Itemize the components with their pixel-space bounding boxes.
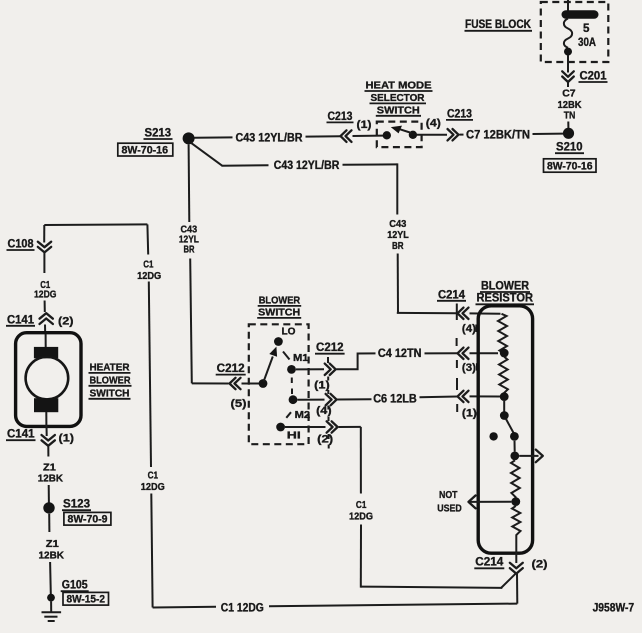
connector C212 (5) chevrons [230,378,241,389]
label C213 right [446,107,473,120]
label C108 [7,238,35,251]
resistor element segment 3 [511,460,520,501]
svg-text:C213: C213 [328,110,353,123]
reference box 8W-70-9 [64,512,111,525]
svg-text:(4): (4) [316,405,332,417]
connector C214 dashed line [456,304,459,413]
reference box 8W-15-2 [63,592,109,605]
label SWITCH [376,106,421,117]
svg-text:C7 12BK/TN: C7 12BK/TN [466,128,530,141]
wire label Z1 12BK (lower) [39,539,65,562]
splice S123 [43,502,54,513]
splice S210 [563,128,574,139]
wire to C141 (2) [44,301,46,313]
motor armature circle [26,357,69,400]
connector C212 (1) chevrons [325,364,336,375]
label S123 [62,498,91,511]
splice dot (1) tap [500,392,509,401]
label FUSE BLOCK [465,18,533,31]
svg-text:C1: C1 [356,500,367,511]
wire bottom C1 12DG right segment [269,604,517,607]
svg-text:S210: S210 [556,141,583,154]
label BLOWER (switch title) [258,295,302,306]
fuse block dashed box [541,2,609,62]
connector C213 right chevrons [448,129,459,140]
splice dot with output arrow [510,452,519,461]
svg-text:RESISTOR: RESISTOR [477,292,534,305]
wire C212(5) to pivot [242,383,260,385]
wire HI branch down lower [360,525,362,588]
svg-text:5: 5 [583,22,590,35]
dash M2 to HI [286,412,291,418]
wire into S210 [533,133,564,135]
wire label C1 12DG (HI branch) [349,500,373,523]
wire C4 12TN from C212(1): M1 jog [337,353,376,369]
svg-text:M2: M2 [295,410,311,421]
ground symbol [42,612,62,621]
wire into C214 (3) [425,352,458,354]
wire M1 to C212(1) [296,368,324,370]
wire HI branch horizontal [361,587,503,588]
heat mode selector switch dashed box [377,122,422,148]
isolated contact dot [489,432,497,440]
svg-text:M1: M1 [293,353,309,364]
wire fuse to C201 [567,55,569,73]
M2 contact [289,395,298,404]
connector C214 (1) chevrons [458,391,469,402]
svg-text:C1: C1 [143,260,153,271]
label BLOWER (motor) [89,375,132,386]
svg-text:C1: C1 [148,471,159,482]
wire C201 to S210 [567,122,569,129]
blower resistor outline [478,306,532,553]
blower switch dashed box [249,324,309,444]
LO contact [274,337,283,346]
svg-text:Z1: Z1 [43,463,56,474]
resistor element segment 1 [498,314,507,353]
wire C1 12DG middle vertical upper [146,224,149,254]
connector C212 (4) chevrons [326,394,337,405]
svg-text:12BK: 12BK [38,474,64,485]
motor lead bottom [45,412,47,426]
svg-text:C1 12DG: C1 12DG [221,601,264,614]
motor lead top [45,334,47,348]
svg-text:8W-15-2: 8W-15-2 [67,594,106,606]
svg-text:C4 12TN: C4 12TN [378,347,422,360]
HI contact [276,423,285,432]
label BLOWER (resistor title) [480,280,530,293]
wire G105 to ground [50,602,52,612]
svg-text:SELECTOR: SELECTOR [371,93,425,104]
wire to S123 [48,485,50,503]
label C212 left [216,362,246,375]
wire C1 12DG middle vertical middle [149,282,151,468]
svg-text:G105: G105 [62,579,88,592]
svg-text:BLOWER: BLOWER [90,375,131,386]
label HEATER [89,362,131,373]
thermal limiter arm [506,419,514,433]
wire to G105 [49,562,52,594]
label NOT USED [437,490,462,515]
wire C214(1) into resistor [470,395,501,397]
label C213 left [327,110,354,123]
fuse F5 30A element [564,19,572,48]
wire label C1 12DG (middle upper) [137,260,161,282]
svg-text:BLOWER: BLOWER [481,280,530,293]
svg-text:C201: C201 [580,70,608,83]
svg-text:8W-70-16: 8W-70-16 [122,145,169,157]
svg-text:C141: C141 [7,428,35,441]
wire C108 to label [43,253,45,273]
heat mode switch left contact [383,131,391,139]
wire corner down toward C214 [396,163,398,214]
connector C141 (2) chevrons [40,313,53,324]
svg-text:(4): (4) [426,118,441,130]
connector C214 (3) chevrons [458,348,469,359]
NOT USED arrow left [469,496,512,509]
svg-text:LO: LO [282,327,296,338]
blower switch arm arrowhead [269,347,277,357]
label C212 right [315,341,345,354]
wire into switch [353,135,384,137]
svg-text:12DG: 12DG [34,290,57,301]
blower switch arm [264,357,273,382]
svg-text:J958W-7: J958W-7 [593,602,635,615]
label C201 [579,70,608,83]
label SELECTOR [370,93,427,104]
heat mode switch arm arrowhead [391,126,402,134]
wire M2 to C212(4) [297,399,324,401]
wire C6 12LB from C212(4) [337,398,372,400]
label C214 top [437,288,466,301]
splice S213 [183,132,195,144]
wire label C7 12BK TN [558,89,583,122]
reference box 8W-70-16 (S213) [118,143,173,156]
svg-text:C7: C7 [562,89,576,100]
svg-text:C108: C108 [8,238,35,251]
M1 contact [287,365,296,374]
wire switch to C213 right [417,134,448,136]
svg-text:SWITCH: SWITCH [90,388,130,399]
svg-text:NOT: NOT [439,490,458,501]
svg-text:S123: S123 [63,498,91,511]
wire label C1 12DG (middle lower) [141,471,165,494]
thermal limiter contact dot [500,411,509,420]
wire HI branch down upper [360,427,362,494]
connector C214 (2) chevrons [510,563,523,574]
svg-text:12YL: 12YL [387,230,409,241]
connector C212 (2) chevrons [327,421,338,432]
wire lower C43 branch horizontal [222,164,269,166]
svg-text:C6 12LB: C6 12LB [373,392,417,405]
label C214 bottom [474,556,504,569]
wire label C1 12DG (motor feed) [34,280,57,301]
hot bus bar [562,10,599,19]
heater blower switch (motor) outline [16,333,81,427]
svg-text:(1): (1) [462,408,477,420]
wire label C43 12YL BR (stack left) [179,224,200,255]
svg-text:(1): (1) [59,433,75,445]
svg-text:C214: C214 [475,556,504,569]
motor brush bottom [34,398,58,412]
junction dot in fuse block [564,48,572,56]
svg-text:HI: HI [287,430,301,441]
wire into C214 (1) [420,396,458,399]
connector C201 chevrons [562,71,574,87]
dash LO to M1 [283,352,290,360]
svg-text:HEATER: HEATER [90,362,130,373]
label C141 top [6,313,35,326]
connector C213 left chevrons [341,130,352,142]
wire C214(4) into resistor [470,312,501,314]
dashes M1 to M2 [291,378,293,395]
svg-text:BR: BR [184,244,195,255]
connector C108 chevrons [38,242,51,253]
heat mode switch right contact [409,131,417,139]
wire resistor output down [515,539,517,563]
wire S213 to C213 left [195,136,233,138]
ground splice G105 [47,594,55,602]
wire tap down [503,401,505,412]
resistor element segment 2 [499,357,508,397]
wire S213 diagonal to lower branch [191,143,222,166]
wire resume down to resistor feed [397,254,399,314]
label S213 [144,127,173,140]
heat mode switch arm [399,129,412,133]
label G105 [61,579,89,592]
svg-text:SWITCH: SWITCH [258,307,300,318]
svg-text:(4): (4) [462,323,476,335]
svg-text:HEAT MODE: HEAT MODE [366,81,432,92]
svg-text:(3): (3) [462,362,476,374]
wire into C212 (5) [192,382,229,384]
svg-text:C43 12YL/BR: C43 12YL/BR [236,132,304,145]
svg-text:BLOWER: BLOWER [259,295,301,306]
output arrow right [519,450,543,463]
blower switch pivot contact [259,379,268,388]
svg-text:USED: USED [437,504,462,515]
svg-text:12DG: 12DG [137,271,161,282]
svg-text:C212: C212 [217,362,245,375]
wire arm to tap [514,441,516,452]
svg-text:C43: C43 [389,219,406,230]
reference box 8W-70-16 (S210) [544,159,597,173]
wire into motor box [44,325,46,335]
wire HI to C212(2) [285,426,326,428]
connector C214 (4) chevrons [458,308,469,319]
svg-text:BR: BR [392,241,404,252]
label HEAT MODE [365,81,433,92]
wire C214(2) down [516,574,518,604]
svg-text:C214: C214 [438,288,466,301]
svg-text:(5): (5) [231,398,247,410]
wire motor column top [43,225,45,243]
label SWITCH (motor) [89,388,131,399]
wire C1 12DG middle vertical lower [151,494,152,608]
wire S123 down [48,514,50,532]
wire S213 main vertical lower [190,259,192,384]
motor brush top [34,347,58,358]
wire label C43 12YL BR (stack right) [387,219,409,252]
label SWITCH (blower) [257,307,301,318]
label RESISTOR [476,292,535,305]
label C141 bottom [6,428,36,441]
wire C141(1) down [47,447,49,457]
svg-text:(1): (1) [357,119,372,131]
wire C7 12BK/TN from C213 to S210 [460,134,464,136]
wire S213 main vertical upper [188,144,191,222]
label S210 [555,141,584,154]
svg-text:FUSE BLOCK: FUSE BLOCK [465,18,532,31]
svg-text:C213: C213 [447,107,472,120]
svg-text:Z1: Z1 [46,539,59,550]
svg-text:12DG: 12DG [141,482,165,493]
resistor element segment 4 [512,506,521,539]
splice dot NOT USED tap [511,497,520,506]
svg-text:(1): (1) [314,380,330,392]
wire into C213 left [306,135,342,137]
svg-text:12BK: 12BK [39,551,65,562]
svg-text:8W-70-9: 8W-70-9 [68,514,108,526]
svg-text:(2): (2) [532,559,548,571]
svg-text:TN: TN [564,110,576,121]
wire HI to corner [339,426,361,428]
wire across to C214 (4) [397,312,457,314]
wire motor to C141 (1) [46,426,48,436]
wire bottom C1 12DG left segment [153,606,216,609]
wire C214(3) into resistor [470,352,499,354]
wire label Z1 12BK (upper) [38,463,64,485]
svg-text:C43 12YL/BR: C43 12YL/BR [274,159,340,172]
splice dot (3) tap [500,349,509,358]
svg-text:30A: 30A [578,36,597,49]
wire top horizontal feed to motor column [44,223,147,226]
connector C212 dashed line [327,357,330,449]
arm end contact dot [510,432,519,441]
svg-text:C141: C141 [7,313,35,326]
wire to corner [343,163,398,165]
svg-text:SWITCH: SWITCH [377,106,420,117]
wire diagonal from HI branch to C214(2) [501,573,516,588]
wire feed into fuse block top [567,0,569,11]
svg-text:S213: S213 [145,127,172,140]
connector C141 (1) chevrons [42,435,55,446]
svg-text:12DG: 12DG [349,512,373,523]
svg-text:C212: C212 [316,341,344,354]
svg-text:(2): (2) [317,434,333,446]
svg-text:8W-70-16: 8W-70-16 [547,161,593,173]
svg-text:(2): (2) [58,316,74,328]
